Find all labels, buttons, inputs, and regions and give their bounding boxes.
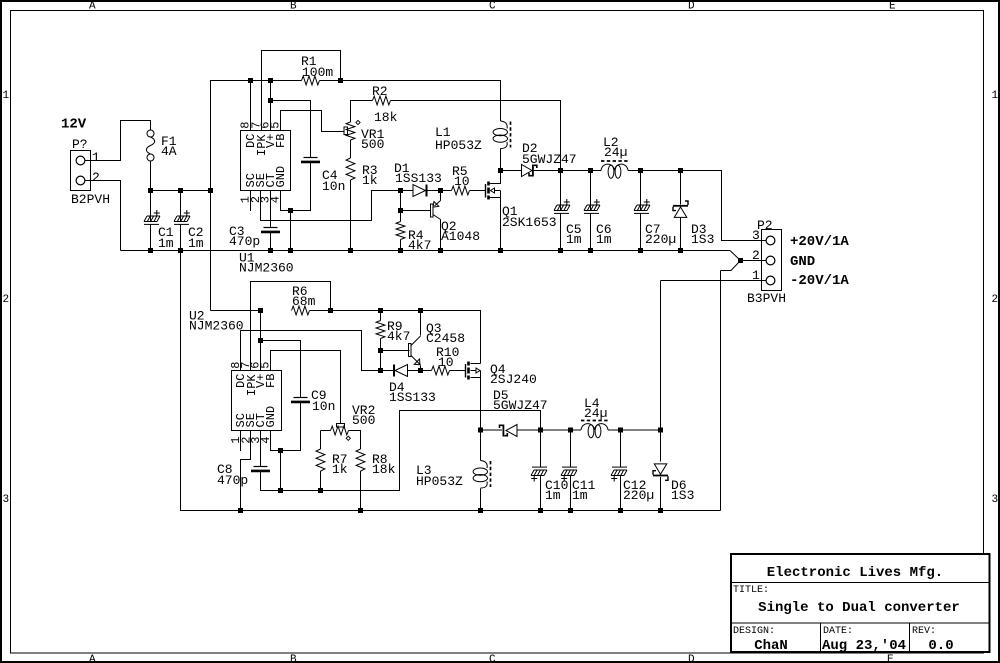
svg-text:HP053Z: HP053Z	[435, 138, 482, 153]
svg-text:1: 1	[3, 90, 10, 102]
node gnd rail C6	[588, 248, 593, 253]
wire L3 bottom lead	[480, 489, 482, 511]
frame zone letters top	[89, 1, 896, 13]
node V+/C9 tap	[258, 338, 263, 343]
resistor R1 100m	[301, 54, 333, 85]
wire output rail y=170 C5 to C6	[561, 170, 602, 172]
wire U2 pin8 DC to gate drive network	[241, 331, 381, 371]
transformer L3 HP053Z primary	[416, 461, 491, 490]
svg-text:1S3: 1S3	[671, 488, 694, 503]
svg-text:B2PVH: B2PVH	[71, 192, 110, 207]
diode D1 1SS133	[394, 161, 442, 197]
node local gnd U2	[278, 488, 283, 493]
diode D4 1SS133	[389, 365, 436, 406]
svg-text:A: A	[89, 654, 96, 663]
wire U2 pin5 FB to VR2 wiper	[271, 351, 341, 424]
svg-text:NJM2360: NJM2360	[189, 319, 244, 334]
wire R2 right lead to output sense	[391, 101, 561, 171]
wire capacitor C7 leads	[640, 171, 642, 251]
wire Q2 base from R4 node	[401, 191, 431, 211]
wire R9 bottom node to D4 node	[380, 351, 382, 371]
wire 12V input rail y=190	[151, 190, 211, 192]
node input gnd C11	[568, 508, 573, 513]
svg-text:DATE:: DATE:	[823, 626, 853, 637]
node D1 cathode/Q2 emitter/R5	[438, 188, 443, 193]
svg-text:2SK1653: 2SK1653	[502, 215, 557, 230]
svg-text:C: C	[489, 1, 496, 13]
node 12V-A riser	[208, 188, 213, 193]
svg-text:5: 5	[269, 122, 283, 129]
wire U1 pin7 IPK bypass loop over R1	[262, 51, 341, 131]
svg-text:2: 2	[752, 248, 760, 263]
connector P1 (P?)	[71, 137, 111, 207]
wire Q4 drain stub to rail	[471, 363, 481, 365]
wire D1 anode lead	[401, 190, 414, 192]
node gnd rail C7	[638, 248, 643, 253]
wire Q3 emitter to D4 node	[420, 366, 422, 371]
node D1 anode/SE	[398, 188, 403, 193]
wire U1 pin3 CT to C3	[270, 191, 272, 251]
IC U2 NJM2360 body	[189, 309, 282, 431]
node gnd rail C3	[268, 248, 273, 253]
svg-text:A: A	[89, 1, 96, 13]
node gnd rail R4	[398, 248, 403, 253]
node 12V rail U1 pin8	[248, 78, 253, 83]
capacitor C3 470p	[229, 224, 280, 249]
capacitor C5 1m electrolytic	[554, 199, 582, 247]
svg-text:C2458: C2458	[426, 331, 465, 346]
wire P1 pin1 to fuse F1	[85, 121, 151, 161]
svg-text:24µ: 24µ	[604, 145, 627, 160]
node input gnd L3	[478, 508, 483, 513]
node gnd rail R3	[348, 248, 353, 253]
node gnd rail Q1 source	[498, 248, 503, 253]
capacitor C11 1m electrolytic	[561, 467, 596, 503]
wire capacitor C12 leads	[620, 430, 622, 511]
wire D5 leads	[481, 429, 541, 431]
frame zone letters bottom	[89, 654, 894, 663]
svg-text:HP053Z: HP053Z	[416, 474, 463, 489]
wire U2 pin3 CT to C8	[261, 431, 281, 491]
wire R10 leads	[421, 370, 466, 372]
wire GND node diagonal to ground return riser	[721, 261, 741, 271]
wire -20V rail y=430 C10 to C11	[541, 429, 582, 431]
resistor R5 10	[452, 164, 470, 195]
svg-text:REV:: REV:	[912, 626, 936, 637]
svg-text:0.0: 0.0	[928, 638, 953, 654]
svg-text:10n: 10n	[322, 179, 345, 194]
svg-text:+20V/1A: +20V/1A	[790, 234, 849, 250]
svg-text:2SJ240: 2SJ240	[490, 372, 537, 387]
svg-text:Single to Dual converter: Single to Dual converter	[758, 600, 960, 616]
svg-text:3: 3	[992, 494, 999, 506]
wire VR1 bottom to R3 top	[350, 140, 352, 158]
svg-text:4: 4	[269, 196, 283, 203]
wire U2 pin7 IPK bypass loop over R6	[251, 282, 331, 371]
svg-text:NJM2360: NJM2360	[239, 261, 294, 276]
svg-text:100m: 100m	[302, 65, 333, 80]
svg-text:500: 500	[352, 413, 375, 428]
transformer L1 HP053Z primary	[435, 121, 511, 153]
diode D5 5GWJZ47 schottky	[493, 388, 548, 437]
node input gnd C12	[618, 508, 623, 513]
svg-text:D: D	[688, 654, 695, 663]
wire U1 pin6 V+ to rail	[270, 81, 272, 131]
node 12V rail U1 pin6	[268, 78, 273, 83]
node U2 rail Q3 collector	[418, 308, 423, 313]
node input gnd U2 pin2	[238, 508, 243, 513]
svg-text:2: 2	[3, 294, 10, 306]
wire ground rail diagonal into GND node	[730, 251, 741, 261]
svg-text:GND: GND	[264, 406, 278, 428]
wire R4 leads	[400, 211, 402, 251]
wire U1 pin8 DC to rail	[250, 81, 252, 131]
node D3 top	[678, 168, 683, 173]
node D4 anode/Q3 emitter/R10	[418, 368, 423, 373]
node U2 GND/C9	[278, 448, 283, 453]
wire -20V riser x=660	[660, 281, 662, 431]
svg-text:3: 3	[752, 228, 760, 243]
svg-text:1m: 1m	[596, 232, 612, 247]
wire U1 pin1 SC no-connect stub	[250, 191, 252, 212]
wire R5 leads	[441, 190, 486, 192]
wire 12V riser to U2 rail y=310	[211, 310, 262, 312]
potentiometer VR1 500	[344, 120, 385, 152]
svg-text:1m: 1m	[572, 488, 588, 503]
svg-text:2: 2	[992, 294, 999, 306]
wire U2 pin2 SE to input ground	[241, 431, 251, 511]
svg-text:FB: FB	[274, 134, 288, 148]
wire VR2 left lead to R7	[321, 431, 331, 450]
resistor R7 1k	[316, 449, 348, 477]
wire R8 bottom lead crossing to input ground	[360, 471, 362, 511]
wire D2 leads	[501, 170, 561, 172]
svg-text:1: 1	[752, 268, 760, 283]
wire local ground rail y=490	[281, 411, 541, 491]
svg-text:B: B	[290, 654, 297, 663]
wire U2 rail y=310 right of R6	[310, 311, 481, 364]
resistor R3 1k	[346, 158, 378, 188]
svg-text:1k: 1k	[362, 173, 378, 188]
svg-text:500: 500	[361, 137, 384, 152]
svg-text:3: 3	[3, 494, 10, 506]
svg-text:5GWJZ47: 5GWJZ47	[522, 152, 577, 167]
wire U1 pin2 SE to gate drive network	[261, 191, 401, 221]
wire R9 leads	[380, 311, 382, 351]
capacitor C9 10n	[291, 388, 335, 414]
wire U2 pin4 GND	[271, 431, 281, 491]
svg-text:1SS133: 1SS133	[389, 390, 436, 405]
resistor R10 10	[432, 345, 460, 375]
node input gnd R8	[358, 508, 363, 513]
svg-text:470p: 470p	[229, 234, 260, 249]
svg-text:E: E	[889, 1, 896, 13]
node DC drive/D4 cathode	[378, 368, 383, 373]
svg-text:4: 4	[259, 437, 273, 444]
svg-text:18k: 18k	[372, 462, 396, 477]
wire P1 pin2 to ground rail	[85, 181, 121, 251]
wire zener D3 leads	[680, 171, 682, 251]
wire input ground bottom rail y=510	[181, 251, 721, 511]
svg-text:1S3: 1S3	[691, 232, 714, 247]
wire Q2 emitter vertical	[440, 191, 442, 201]
wire Q3 base wire	[381, 350, 410, 352]
IC U1 NJM2360 body	[239, 131, 294, 276]
svg-text:Aug 23,'04: Aug 23,'04	[822, 638, 906, 654]
node gnd rail U1 GND	[288, 248, 293, 253]
svg-text:4k7: 4k7	[387, 329, 410, 344]
wire R7 bottom lead	[320, 471, 322, 491]
zener D6 1S3	[653, 464, 694, 503]
node +20V raw C5/R2	[558, 168, 563, 173]
resistor R4 4k7	[396, 222, 431, 254]
wire -20V output row to P2 pin1	[661, 280, 767, 282]
svg-text:C: C	[489, 654, 496, 663]
node Q4 source/D5/L3	[478, 428, 483, 433]
wire L1 bottom to Q1 drain node	[500, 149, 502, 171]
svg-text:18k: 18k	[374, 110, 398, 125]
node U2 rail R9	[378, 308, 383, 313]
wire D4 leads	[381, 370, 421, 372]
node gnd rail C5	[558, 248, 563, 253]
wire V+ node to capacitor C9	[261, 341, 301, 451]
capacitor C4 10n	[301, 158, 345, 195]
wire top 12V rail y=80 right of R1	[320, 81, 501, 122]
svg-text:1m: 1m	[566, 232, 582, 247]
transistor Q3 C2458 NPN	[409, 321, 466, 365]
node 12V-A C2	[178, 188, 183, 193]
svg-text:12V: 12V	[61, 117, 87, 133]
frame zone numbers right	[992, 90, 999, 506]
node input gnd C10	[538, 508, 543, 513]
wire capacitor C11 leads	[570, 430, 572, 511]
svg-text:1m: 1m	[188, 236, 204, 251]
node C11/L4 left	[568, 428, 573, 433]
svg-text:FB: FB	[264, 374, 278, 388]
wire capacitor C2 leads	[180, 191, 182, 251]
svg-text:P?: P?	[72, 137, 88, 152]
node C6/L2 left	[588, 168, 593, 173]
wire capacitor C10 leads	[540, 430, 542, 511]
node GND output junction	[738, 258, 743, 263]
node gnd rail C1	[148, 248, 153, 253]
svg-text:220µ: 220µ	[645, 232, 676, 247]
svg-text:4A: 4A	[161, 144, 177, 159]
capacitor C8 470p	[217, 462, 270, 488]
node L4 right/C12	[618, 428, 623, 433]
svg-text:-20V/1A: -20V/1A	[790, 273, 849, 289]
wire ground return riser x=720	[720, 271, 722, 511]
wire -20V rail L4 right to D6	[608, 429, 661, 431]
node R1/IPK sense	[338, 78, 343, 83]
svg-text:1m: 1m	[545, 488, 561, 503]
node L2 right/C7	[638, 168, 643, 173]
wire R3 bottom to ground rail	[350, 180, 352, 251]
node gnd rail D3	[678, 248, 683, 253]
node Q2 base/R4	[398, 208, 403, 213]
resistor R2 18k	[372, 84, 398, 125]
wire output rail L2 right to +20V corner	[628, 171, 766, 241]
resistor R8 18k	[356, 449, 396, 477]
title block	[730, 554, 990, 654]
wire top 12V rail y=80 left of R1	[251, 80, 302, 82]
wire Q2 collector vertical	[440, 220, 442, 251]
svg-text:1m: 1m	[158, 236, 174, 251]
wire capacitor C1 leads	[150, 191, 152, 251]
wire zener D6 leads	[660, 430, 662, 511]
wire GND output to P2 pin2	[741, 260, 767, 262]
svg-text:5: 5	[259, 362, 273, 369]
transistor Q2 A1048 PNP	[431, 201, 481, 245]
potentiometer VR2 500	[331, 403, 376, 440]
svg-text:1SS133: 1SS133	[395, 171, 442, 186]
svg-text:4k7: 4k7	[408, 238, 431, 253]
node R9/Q3 base	[378, 348, 383, 353]
node V+/C4 tap	[268, 98, 273, 103]
inductor L4 24u	[581, 396, 608, 438]
svg-text:R2: R2	[372, 84, 388, 99]
svg-text:10n: 10n	[312, 399, 335, 414]
svg-text:GND: GND	[274, 166, 288, 188]
svg-text:ChaN: ChaN	[754, 638, 788, 654]
resistor R9 4k7	[376, 319, 410, 344]
svg-text:Electronic Lives Mfg.: Electronic Lives Mfg.	[767, 565, 943, 581]
MOSFET Q1 2SK1653 N-channel	[486, 182, 557, 231]
wire V+ node to capacitor C4	[271, 101, 311, 211]
capacitor C6 1m electrolytic	[584, 199, 612, 247]
wire Q4 source and body to D5 node	[471, 371, 481, 431]
fuse F1	[146, 130, 176, 161]
frame zone numbers left	[3, 90, 10, 506]
wire D1 cathode to node	[427, 190, 441, 192]
svg-text:24µ: 24µ	[584, 406, 607, 421]
node gnd rail C2/down-feed	[178, 248, 183, 253]
capacitor C10 1m electrolytic	[531, 467, 568, 503]
wire fuse F1 bottom to 12V node	[150, 161, 152, 191]
wire ground rail y=250	[121, 250, 731, 252]
wire Q1 drain stub	[490, 171, 501, 184]
svg-text:1k: 1k	[332, 462, 348, 477]
wire Q1 source and body to ground rail	[490, 191, 501, 251]
node U1 GND/C4	[288, 208, 293, 213]
capacitor C7 220u electrolytic	[634, 199, 676, 247]
svg-text:TITLE:: TITLE:	[733, 585, 769, 596]
svg-text:68m: 68m	[292, 294, 316, 309]
svg-text:D: D	[688, 1, 695, 13]
wire L3 top lead	[480, 430, 482, 461]
MAIN WIRES (crisp)	[85, 51, 766, 511]
capacitor C1 1m electrolytic	[144, 210, 174, 251]
diagonal wires (not crisp)	[721, 251, 741, 271]
svg-text:B3PVH: B3PVH	[747, 291, 786, 306]
wire R2 to VR1 top	[351, 101, 373, 123]
wire 12V riser x=210 to top rail and bottom section	[211, 81, 251, 311]
wire U2 pin1 SC no-connect stub	[240, 431, 242, 452]
inductor L2 24u	[601, 135, 628, 178]
node R6/IPK sense	[328, 308, 333, 313]
capacitor C2 1m electrolytic	[174, 210, 204, 251]
svg-text:1: 1	[92, 150, 100, 165]
svg-text:470p: 470p	[217, 473, 248, 488]
node L1/D2/Q1 drain	[498, 168, 503, 173]
node input gnd D6	[658, 508, 663, 513]
wire U1 pin4 GND	[281, 191, 291, 251]
wire U1 pin5 FB to VR1 wiper	[281, 111, 345, 132]
node U2 rail pin6 V+	[258, 308, 263, 313]
node D6 top/-20V out	[658, 428, 663, 433]
wire Q3 collector vertical	[420, 311, 422, 336]
diode D2 5GWJZ47 schottky	[522, 141, 577, 177]
svg-text:A1048: A1048	[441, 229, 480, 244]
MOSFET Q4 2SJ240 P-channel	[466, 362, 537, 388]
resistor R6 68m	[292, 284, 316, 315]
svg-text:GND: GND	[790, 254, 815, 270]
svg-text:E: E	[887, 654, 894, 663]
wire capacitor C6 leads	[590, 171, 592, 251]
wire U2 pin6 V+ to rail	[260, 311, 262, 371]
svg-text:DESIGN:: DESIGN:	[733, 626, 775, 637]
svg-text:10: 10	[438, 355, 454, 370]
svg-text:10: 10	[454, 174, 470, 189]
node -20V raw C10	[538, 428, 543, 433]
connector P2	[747, 218, 786, 306]
capacitor C12 220u electrolytic	[611, 467, 654, 503]
svg-text:2: 2	[92, 170, 100, 185]
zener D3 1S3	[673, 201, 714, 247]
node gnd rail Q2 collector	[438, 248, 443, 253]
wire VR2 right lead to R8	[349, 431, 361, 450]
svg-text:B: B	[290, 1, 297, 13]
svg-text:220µ: 220µ	[623, 488, 654, 503]
svg-text:1: 1	[992, 90, 999, 102]
svg-text:5GWJZ47: 5GWJZ47	[493, 398, 548, 413]
wire capacitor C5 leads	[560, 171, 562, 251]
node local gnd R7	[318, 488, 323, 493]
node 12V-A fuse/C1	[148, 188, 153, 193]
